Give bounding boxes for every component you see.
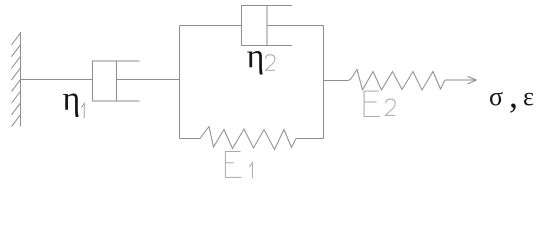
svg-text:,: , bbox=[509, 75, 518, 115]
svg-text:η: η bbox=[63, 81, 81, 118]
svg-text:η: η bbox=[247, 39, 265, 76]
svg-text:σ: σ bbox=[489, 82, 503, 111]
svg-text:ε: ε bbox=[523, 82, 534, 111]
